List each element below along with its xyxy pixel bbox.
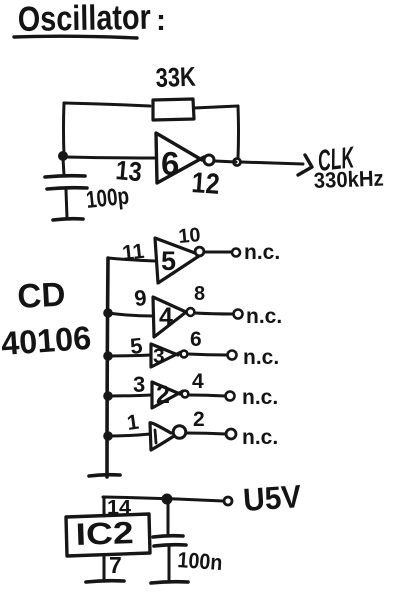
svg-text:40106: 40106 xyxy=(0,319,92,362)
terminal circle gate E xyxy=(226,429,236,439)
gate A bubble xyxy=(195,247,204,256)
capacitor C2 lower wire xyxy=(168,547,171,580)
wire: bus to gate D input (pin 3) xyxy=(108,395,152,396)
svg-text:10: 10 xyxy=(178,224,202,248)
title underline xyxy=(14,36,137,38)
svg-text:13: 13 xyxy=(114,155,143,187)
svg-text:9: 9 xyxy=(133,285,147,311)
svg-text:4: 4 xyxy=(159,303,173,331)
svg-text:33K: 33K xyxy=(155,62,196,93)
capacitor C1 top plate xyxy=(45,176,85,177)
pin 7 stub wire xyxy=(103,556,106,579)
inverter gate A (number 5) xyxy=(155,238,199,283)
wire: node to top-left corner up xyxy=(62,103,66,156)
wire: gate C output xyxy=(188,354,227,355)
title Oscillator: xyxy=(17,0,166,39)
capacitor C2 upper wire xyxy=(167,501,170,535)
svg-text:n.c.: n.c. xyxy=(246,305,282,328)
junction dot bus gate D xyxy=(103,391,113,401)
terminal circle gate C xyxy=(228,351,237,360)
svg-text:12: 12 xyxy=(191,167,221,201)
wire: right vertical down to output node xyxy=(237,106,241,158)
inverter gate E xyxy=(150,423,174,450)
gate B bubble xyxy=(187,308,195,316)
svg-text:100n: 100n xyxy=(177,547,224,575)
svg-text:7: 7 xyxy=(109,552,122,578)
gate D bubble xyxy=(182,391,189,398)
svg-text::: : xyxy=(156,4,166,37)
wire: gate E output xyxy=(187,433,226,434)
ground for bus xyxy=(89,475,120,476)
wire: bus to gate E input (pin 1) xyxy=(108,434,150,436)
inverter gate D (number 2) xyxy=(152,382,183,408)
resistor R1 33K body xyxy=(153,99,194,120)
wire: resistor to right corner xyxy=(194,106,238,108)
inverter U1F (gate 6) xyxy=(156,133,204,183)
supply rail wire xyxy=(103,497,223,501)
wire: bus to gate C input (pin 5) xyxy=(108,355,151,356)
wire: bus top to gate A input (pin 11) xyxy=(108,258,155,261)
svg-text:U5V: U5V xyxy=(242,478,303,518)
svg-text:11: 11 xyxy=(121,240,146,265)
svg-text:3: 3 xyxy=(153,345,165,368)
terminal circle U5V xyxy=(224,497,232,505)
inverter gate C (number 3) xyxy=(151,344,181,367)
ground for IC2 xyxy=(86,581,124,582)
node A junction dot xyxy=(58,151,68,161)
svg-text:Oscillator: Oscillator xyxy=(17,0,151,39)
junction circle at oscillator output xyxy=(234,159,241,166)
capacitor C2 top plate xyxy=(153,536,183,537)
junction dot bus gate E xyxy=(103,431,113,441)
svg-text:5: 5 xyxy=(129,333,144,359)
svg-text:8: 8 xyxy=(194,283,205,305)
wire: gate A output xyxy=(204,251,231,254)
svg-text:IC2: IC2 xyxy=(75,515,134,552)
wire: bubble to output junction xyxy=(215,161,236,162)
capacitor C1 lower wire xyxy=(66,190,67,218)
svg-text:n.c.: n.c. xyxy=(242,386,278,409)
svg-text:CD: CD xyxy=(16,276,66,316)
capacitor C1 wire from node xyxy=(63,158,64,175)
svg-text:100p: 100p xyxy=(85,183,131,214)
arrow head CLK xyxy=(298,155,312,175)
svg-text:2: 2 xyxy=(193,408,205,431)
junction dot supply xyxy=(162,494,173,505)
svg-text:3: 3 xyxy=(133,372,145,397)
svg-text:330kHz: 330kHz xyxy=(313,166,384,193)
svg-text:1: 1 xyxy=(125,411,140,435)
junction dot bus gate B xyxy=(103,308,113,318)
terminal circle gate A xyxy=(232,249,240,257)
capacitor C1 bottom plate xyxy=(47,188,87,189)
svg-text:n.c.: n.c. xyxy=(244,241,280,264)
wire: output to arrow xyxy=(241,162,303,164)
ground for C1 xyxy=(53,219,83,220)
terminal circle gate D xyxy=(226,392,235,401)
svg-text:6: 6 xyxy=(190,328,202,351)
svg-text:2: 2 xyxy=(156,381,170,409)
wire: gate B output xyxy=(195,313,233,314)
gate C bubble xyxy=(181,351,188,358)
svg-text:5: 5 xyxy=(161,246,176,276)
wire: top horizontal to resistor R1 xyxy=(64,103,150,106)
wire: bus to gate B input (pin 9) xyxy=(108,313,153,316)
svg-text:n.c.: n.c. xyxy=(243,346,279,369)
bus wire vertical xyxy=(107,258,108,477)
capacitor C2 bottom plate xyxy=(154,545,186,546)
pin 14 stub wire xyxy=(103,497,106,516)
wire: node to inverter input xyxy=(66,157,155,158)
IC2 box xyxy=(66,514,150,556)
ground for C2 xyxy=(151,582,188,583)
wire: gate D output xyxy=(189,395,225,396)
junction dot bus gate C xyxy=(103,351,113,361)
inverter U1F bubble xyxy=(204,155,214,165)
svg-text:4: 4 xyxy=(192,370,204,393)
gate E inner mark 1 xyxy=(155,430,156,443)
inverter gate B (number 4) xyxy=(153,297,190,337)
terminal circle gate B xyxy=(234,310,243,319)
svg-text:n.c.: n.c. xyxy=(242,426,278,449)
svg-text:6: 6 xyxy=(161,145,179,182)
gate E bubble xyxy=(173,426,186,439)
